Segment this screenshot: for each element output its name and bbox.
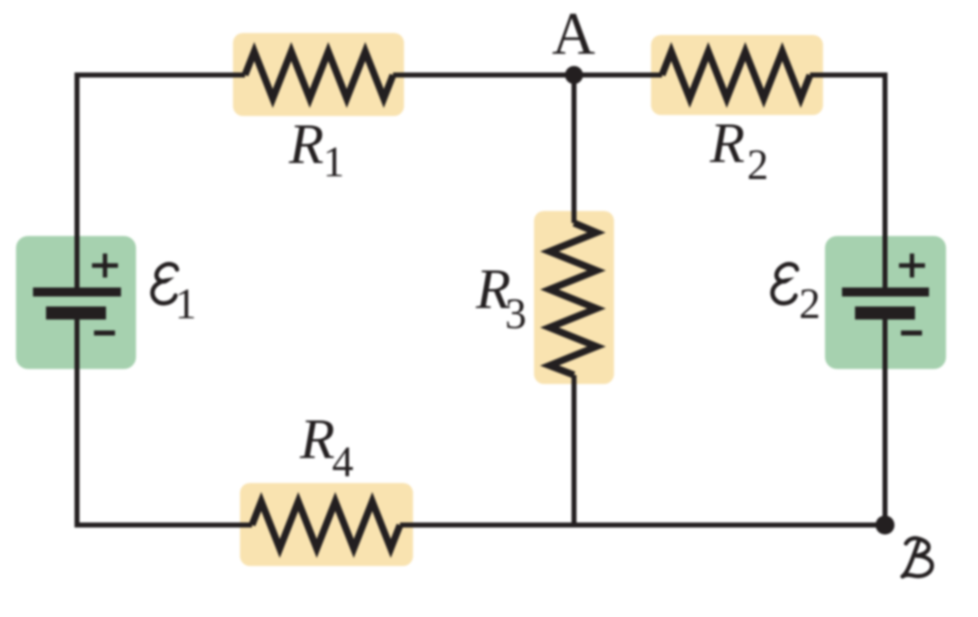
wire R4 to node B [400, 523, 885, 528]
svg-text:4: 4 [332, 439, 354, 486]
svg-text:3: 3 [505, 291, 527, 338]
svg-text:R: R [709, 112, 745, 175]
wire R3 to bottom wire [572, 375, 577, 525]
battery E2 bottom plate (short, negative) [855, 307, 915, 320]
wire node A to R2 [574, 73, 662, 78]
resistor R1 zigzag [245, 52, 393, 99]
battery E1 bottom plate (short, negative) [46, 307, 106, 320]
battery E2 top plate (long, positive) [842, 288, 929, 297]
resistor R4 highlight box [240, 483, 413, 566]
resistor R3 zigzag [550, 223, 597, 375]
svg-text:R: R [299, 408, 335, 471]
resistor R2 highlight box [651, 35, 823, 115]
resistor R1 highlight box [233, 33, 404, 116]
battery E1 plus sign [92, 254, 118, 278]
wire top-left segment [77, 73, 245, 78]
wire right side upper (corner to battery E2 top plate) [883, 73, 888, 292]
svg-text:A: A [552, 1, 595, 67]
label E2 script letter [772, 264, 797, 303]
wire bottom-left segment [77, 523, 252, 528]
svg-text:R: R [288, 113, 324, 176]
battery E1 minus sign [94, 331, 115, 336]
battery E2 plus sign [899, 254, 925, 278]
resistor R4 zigzag [252, 502, 400, 549]
node B junction dot [876, 516, 895, 535]
svg-text:1: 1 [323, 139, 345, 186]
svg-text:2: 2 [799, 281, 821, 328]
wire R1 to node A [393, 73, 574, 78]
resistor R2 zigzag [662, 52, 810, 99]
wire node A down to R3 [572, 75, 577, 223]
wire right side lower (battery E2 to node B) [883, 312, 888, 525]
label E1 script letter [152, 264, 177, 303]
battery E1 highlight box [16, 236, 136, 369]
svg-text:2: 2 [747, 142, 769, 189]
wire left side upper (corner to battery E1 top plate) [75, 73, 80, 292]
wire left side lower (battery E1 to bottom-left corner) [75, 312, 80, 528]
battery E1 top plate (long, positive) [33, 288, 121, 297]
battery E2 highlight box [825, 236, 946, 369]
node A junction dot [565, 66, 583, 84]
node B script label [903, 538, 933, 576]
battery E2 minus sign [901, 331, 922, 336]
wire R2 to top-right corner [810, 73, 885, 78]
resistor R3 highlight box [534, 211, 614, 384]
svg-text:1: 1 [175, 281, 197, 328]
